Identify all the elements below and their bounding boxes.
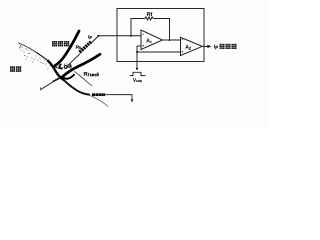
series resistor Rs hatched body: [79, 42, 91, 53]
node A (summing junction): [130, 35, 132, 37]
pipette wire to amplifier: [98, 35, 141, 37]
A1 input polarity marks: [142, 33, 144, 35]
label microelectrode (微电极): [52, 41, 69, 46]
label R(seal): [84, 72, 98, 76]
label monitor (监视器): [220, 44, 237, 49]
label Ip at output: [214, 45, 218, 50]
bath electrode bar: [92, 93, 105, 96]
pipette right wall: [62, 54, 101, 77]
thin line to lower-left with tick: [41, 78, 60, 90]
label Rs: [76, 46, 81, 49]
junction knot at pipette tip: [54, 65, 57, 68]
feedback wire right segment: [153, 19, 169, 41]
membrane U-hook at seal: [62, 74, 74, 79]
ground arrowhead: [131, 100, 134, 103]
Vcmd vertical wire: [136, 46, 138, 69]
op-amp A2: [181, 37, 203, 55]
membrane arc tail under electrode: [90, 96, 108, 107]
A2 input polarity marks: [182, 39, 184, 41]
bath ground wire: [105, 95, 132, 100]
pipette left wall: [55, 31, 79, 66]
membrane patch curl at tip: [59, 64, 62, 68]
cell membrane lower arc: [64, 80, 90, 95]
label Vcmd: [133, 78, 141, 82]
Vcmd pulse symbol: [130, 72, 146, 75]
op-amp A1: [141, 30, 163, 50]
R(seal) pointer line: [74, 71, 92, 86]
label Ip (pipette current): [88, 35, 91, 39]
wire A1 output to A2 input: [163, 39, 181, 41]
label cell (细胞): [10, 66, 21, 72]
A2 lower input wire to Vcmd node: [137, 51, 181, 53]
node Vcmd junction: [136, 51, 138, 53]
node dot at wire corner: [97, 35, 99, 37]
node at A1 output: [169, 39, 171, 41]
membrane tick near arc end: [19, 45, 22, 48]
label A1: [147, 39, 151, 44]
cell membrane mid arc under pipette tip: [48, 60, 65, 80]
cytoplasm speckles: [21, 47, 51, 70]
output arrowhead: [207, 45, 211, 48]
headstage enclosure box: [117, 9, 204, 62]
cell membrane upper arc: [18, 43, 36, 52]
feedback wire left segment: [131, 19, 145, 36]
label Rf: [147, 12, 152, 16]
A1 noninverting input wire: [137, 45, 141, 47]
label A2: [186, 45, 191, 49]
series resistor Rs axis wire: [69, 36, 98, 64]
Vcmd terminal dot: [136, 68, 138, 70]
resistor Rf zigzag: [145, 17, 153, 20]
output wire: [202, 45, 207, 47]
